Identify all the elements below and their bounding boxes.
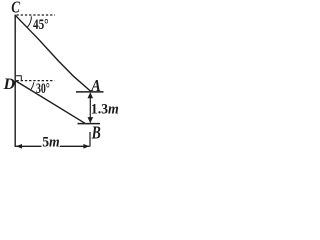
right-angle mark at D (16, 76, 21, 80)
arrowhead up at A (88, 92, 94, 98)
node A tick (76, 91, 104, 93)
svg-text:C: C (11, 0, 20, 17)
svg-text:45°: 45° (33, 17, 49, 33)
arrowhead left at base of CD (16, 144, 22, 149)
angle arc at C (27, 16, 32, 27)
wire: extension tick below B (89, 132, 91, 147)
svg-text:D: D (3, 76, 16, 93)
wire: dashed horizontal reference line at D (17, 80, 55, 82)
svg-text:30°: 30° (36, 81, 50, 97)
svg-text:B: B (91, 123, 101, 143)
arrowhead right at tick below B (83, 144, 89, 149)
wire: dashed horizontal reference line at C (17, 14, 56, 16)
wire: dimension line 5m left segment (15, 145, 42, 147)
svg-text:1.3m: 1.3m (91, 102, 119, 118)
wire: line of sight C to A (45 deg) (15, 15, 91, 91)
svg-text:A: A (90, 76, 100, 95)
wire: line of sight D to B (30 deg) (16, 81, 85, 123)
background (0, 0, 120, 156)
svg-text:5m: 5m (42, 135, 60, 151)
wire: dimension line AB (89, 94, 91, 123)
node B tick (78, 123, 101, 125)
wire: left vertical line CD extended to ground (14, 15, 16, 147)
angle arc at D (31, 82, 34, 89)
wire: dimension line 5m right segment (60, 145, 90, 147)
arrowhead down at B (88, 117, 94, 123)
